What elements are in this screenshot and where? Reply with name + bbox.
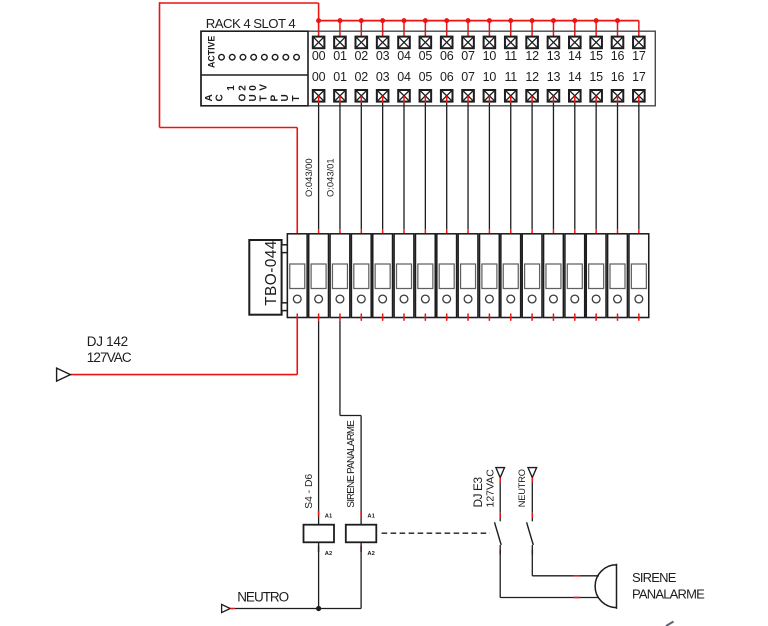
wire red drop col 16 [617, 21, 619, 43]
svg-text:05: 05 [419, 49, 433, 63]
wire red tick TBO top 04 [403, 229, 405, 239]
wire red tick TBO bottom 12 [531, 314, 533, 321]
wire output 15 to TBO [595, 103, 597, 230]
TBO-044 terminal 05 [415, 234, 435, 318]
wire output 17 to TBO [638, 103, 640, 230]
node bus junction col 01 [337, 18, 342, 23]
wire O:043/01 down lower [360, 416, 362, 525]
TBO-044 terminal 15 [586, 234, 606, 318]
svg-text:10: 10 [483, 70, 497, 84]
terminal bottom 13 [548, 90, 560, 102]
tab lower [282, 303, 289, 311]
wire red tick TBO top 01 [339, 229, 341, 239]
wire red stub terminal 14 [574, 96, 576, 103]
terminal bottom 02 [356, 90, 368, 102]
wire red drop col 13 [552, 21, 554, 43]
terminal bottom 16 [612, 90, 624, 102]
contact blade DJ E3 [495, 522, 502, 545]
terminal top 15 [590, 37, 602, 49]
wire DJ E3 to siren [500, 597, 599, 599]
TBO-044 terminal 00 [309, 234, 329, 318]
wire red tick TBO top 11 [510, 229, 512, 239]
svg-text:NEUTRO: NEUTRO [237, 590, 288, 605]
svg-text:0: 0 [248, 85, 259, 91]
wire contact fixed end NEUTRO switch [531, 517, 533, 521]
wire red tick above contact DJ E3 [499, 513, 501, 517]
svg-text:13: 13 [547, 49, 561, 63]
wire red tick TBO bottom 10 [488, 314, 490, 321]
svg-text:04: 04 [397, 70, 411, 84]
wire 127VAC feed top horizontal [160, 2, 319, 4]
module status divider [201, 74, 308, 76]
terminal bottom 15 [590, 90, 602, 102]
terminal bottom 06 [441, 90, 453, 102]
svg-text:12: 12 [525, 70, 539, 84]
svg-text:C: C [215, 94, 226, 101]
svg-text:V: V [259, 84, 270, 91]
terminal top 04 [398, 37, 410, 49]
dashed link coil K2 to contact DJ E3 [382, 532, 490, 534]
node bus junction col 04 [402, 18, 407, 23]
wire red tick TBO top 06 [446, 229, 448, 239]
tab upper [282, 245, 289, 253]
wire red tick TBO bottom supply [296, 314, 298, 321]
svg-text:11: 11 [504, 70, 517, 84]
wire red tick below contact NEUTRO switch [531, 550, 533, 555]
svg-text:TBO-044: TBO-044 [263, 240, 280, 306]
wire red drop col 05 [424, 21, 426, 43]
wire red tick below arrow DJ E3 [499, 478, 501, 483]
terminal top 17 [633, 37, 645, 49]
wire 127VAC horizontal to DJ 142 arrow [70, 374, 297, 376]
svg-text:T: T [291, 95, 302, 101]
svg-text:O:043/00: O:043/00 [303, 158, 314, 197]
wire red stub terminal 07 [467, 96, 469, 103]
TBO-044 terminal 11 [501, 234, 521, 318]
wire NEUTRO to siren [532, 575, 599, 577]
node bus junction col 16 [615, 18, 620, 23]
terminal strip label box TBO-044 [249, 240, 281, 315]
svg-text:04: 04 [397, 49, 411, 63]
svg-text:13: 13 [547, 70, 561, 84]
svg-text:U: U [280, 94, 291, 101]
terminal bottom 11 [505, 90, 517, 102]
wire output 03 to TBO [382, 103, 384, 230]
svg-text:05: 05 [419, 70, 433, 84]
node bus junction col 11 [508, 18, 513, 23]
terminal bottom 12 [526, 90, 538, 102]
wire red stub terminal 00 [318, 96, 320, 103]
svg-text:A: A [204, 94, 215, 101]
svg-text:O: O [237, 94, 248, 102]
wire 127VAC feed drop to TBO terminal [296, 128, 298, 240]
terminal top 02 [356, 37, 368, 49]
TBO-044 terminal 02 [351, 234, 371, 318]
wire output 07 to TBO [467, 103, 469, 230]
svg-text:14: 14 [568, 49, 582, 63]
wire red tick TBO bottom 15 [595, 314, 597, 321]
TBO-044 terminal 16 [608, 234, 628, 318]
terminal top 01 [334, 37, 346, 49]
svg-text:A2: A2 [325, 551, 332, 557]
terminal top 10 [484, 37, 496, 49]
TBO-044 terminal supply [287, 234, 307, 318]
stray mark [666, 622, 674, 626]
svg-text:01: 01 [333, 70, 347, 84]
svg-text:12: 12 [525, 49, 539, 63]
svg-text:11: 11 [504, 49, 517, 63]
terminal top 16 [612, 37, 624, 49]
svg-text:T: T [259, 95, 270, 101]
wire red tick TBO bottom 02 [360, 314, 362, 321]
svg-text:SIRENE PANALARME: SIRENE PANALARME [346, 420, 357, 508]
svg-text:DJ E3: DJ E3 [471, 477, 485, 508]
terminal bottom 17 [633, 90, 645, 102]
wire red stub terminal 05 [424, 96, 426, 103]
terminal top 03 [377, 37, 389, 49]
wire red tick TBO top 12 [531, 229, 533, 239]
svg-text:07: 07 [461, 49, 475, 63]
wire red tick TBO bottom 04 [403, 314, 405, 321]
wire red drop col 17 [638, 21, 640, 43]
LED indicators [219, 54, 300, 60]
node bus junction col 02 [359, 18, 364, 23]
TBO-044 terminal 17 [629, 234, 649, 318]
svg-text:O:043/01: O:043/01 [325, 158, 336, 197]
wire output 16 to TBO [617, 103, 619, 230]
wire red stub terminal 13 [552, 96, 554, 103]
wire red tick TBO top 16 [617, 229, 619, 239]
wire 127VAC feed mid horizontal [160, 127, 298, 129]
wire 127VAC below TBO terminal [296, 314, 298, 375]
node DJ 142 source arrow [57, 368, 71, 381]
wire red stub terminal 16 [617, 96, 619, 103]
siren horn [595, 564, 616, 609]
wire red drop col 11 [510, 21, 512, 43]
svg-text:PANALARME: PANALARME [632, 586, 705, 601]
svg-text:U: U [248, 94, 259, 101]
wire red drop col 14 [574, 21, 576, 43]
svg-text:16: 16 [611, 70, 625, 84]
wire red stub terminal 03 [382, 96, 384, 103]
TBO-044 terminal 13 [544, 234, 564, 318]
svg-text:02: 02 [355, 49, 369, 63]
wire red stub terminal 01 [339, 96, 341, 103]
wire red stub terminal 15 [595, 96, 597, 103]
wire upper DJ E3 [499, 483, 501, 513]
svg-text:NEUTRO: NEUTRO [517, 469, 527, 507]
terminal top 14 [569, 37, 581, 49]
wire 127VAC feed left vertical [159, 2, 161, 127]
node junction NEUTRO coil K1 [316, 606, 321, 611]
wire coil K2 to neutro [360, 542, 362, 608]
wire red tick A2 coil K1 [318, 546, 320, 553]
node NEUTRO switch arrow [528, 468, 537, 478]
wire O:043/01 down upper [339, 321, 341, 416]
wire red stub terminal 04 [403, 96, 405, 103]
contact blade NEUTRO switch [527, 522, 534, 545]
svg-text:127VAC: 127VAC [87, 350, 132, 365]
wire red tick below contact DJ E3 [499, 550, 501, 555]
node bus junction col 13 [551, 18, 556, 23]
TBO-044 terminal 10 [480, 234, 500, 318]
wire output 06 to TBO [446, 103, 448, 230]
svg-text:A1: A1 [367, 513, 375, 519]
svg-text:1: 1 [226, 85, 237, 91]
svg-text:16: 16 [611, 49, 625, 63]
TBO-044 terminal 01 [330, 234, 350, 318]
svg-text:06: 06 [440, 49, 454, 63]
wire red drop col 10 [488, 21, 490, 43]
terminal top 06 [441, 37, 453, 49]
wire red drop col 04 [403, 21, 405, 43]
wire red stub terminal 12 [531, 96, 533, 103]
wire contact fixed end DJ E3 [499, 517, 501, 521]
wire red tick A2 coil K2 [360, 546, 362, 553]
TBO-044 terminal 07 [458, 234, 478, 318]
wire red stub terminal 02 [360, 96, 362, 103]
node bus junction col 00 [316, 18, 321, 23]
svg-text:A1: A1 [325, 513, 333, 519]
wire red tick TBO bottom 11 [510, 314, 512, 321]
node bus junction col 03 [380, 18, 385, 23]
wire red drop col 06 [446, 21, 448, 43]
wire red bus over outputs [319, 20, 639, 22]
wire output 13 to TBO [552, 103, 554, 230]
svg-text:17: 17 [632, 70, 646, 84]
wire red tick TBO bottom 07 [467, 314, 469, 321]
coil K2 SIRENE PANALARME [346, 525, 377, 543]
module RACK 4 SLOT 4 outline [201, 31, 655, 106]
svg-text:00: 00 [312, 49, 326, 63]
wire red drop col 02 [360, 21, 362, 43]
wire red tick TBO bottom 14 [574, 314, 576, 321]
wire red drop col 15 [595, 21, 597, 43]
wire upper NEUTRO switch [531, 483, 533, 513]
wire output 02 to TBO [360, 103, 362, 230]
wire red stub terminal 17 [638, 96, 640, 103]
node bus junction col 05 [423, 18, 428, 23]
node NEUTRO source arrow [222, 604, 231, 612]
svg-text:03: 03 [376, 70, 390, 84]
terminal bottom 01 [334, 90, 346, 102]
svg-text:06: 06 [440, 70, 454, 84]
wire output 05 to TBO [424, 103, 426, 230]
terminal top 05 [420, 37, 432, 49]
wire output 04 to TBO [403, 103, 405, 230]
wire red tick TBO bottom 01 [339, 314, 341, 321]
svg-text:RACK 4 SLOT 4: RACK 4 SLOT 4 [206, 16, 296, 31]
wire red tick TBO top 05 [424, 229, 426, 239]
wire red tick TBO bottom 05 [424, 314, 426, 321]
wire red tick TBO top 15 [595, 229, 597, 239]
wire red drop col 03 [382, 21, 384, 43]
terminal bottom 00 [313, 90, 325, 102]
label AC OUTPUT [204, 94, 302, 102]
svg-text:SIRENE: SIRENE [632, 570, 677, 585]
terminal bottom 05 [420, 90, 432, 102]
node bus junction col 10 [487, 18, 492, 23]
node bus junction col 07 [466, 18, 471, 23]
wire red tick TBO top 00 [318, 229, 320, 239]
wire red tick TBO bottom 03 [382, 314, 384, 321]
svg-text:ACTIVE: ACTIVE [206, 36, 216, 68]
wire output 11 to TBO [510, 103, 512, 230]
TBO-044 terminal 04 [394, 234, 414, 318]
svg-text:A2: A2 [367, 551, 374, 557]
terminal bottom 03 [377, 90, 389, 102]
wire NEUTRO horizontal [235, 608, 361, 610]
terminal bottom 07 [462, 90, 474, 102]
wire red tick TBO top 14 [574, 229, 576, 239]
terminal top 07 [462, 37, 474, 49]
wire red tick NEUTRO arrow [230, 608, 235, 610]
TBO-044 terminal 14 [565, 234, 585, 318]
svg-text:15: 15 [589, 49, 603, 63]
terminal top 13 [548, 37, 560, 49]
wire red drop col 07 [467, 21, 469, 43]
wire red drop col 12 [531, 21, 533, 43]
node bus junction col 15 [594, 18, 599, 23]
wire O:043/01 jog [340, 415, 361, 417]
label 120V [226, 84, 270, 91]
wire O:043/00 down [318, 321, 320, 525]
svg-text:P: P [269, 95, 280, 102]
wire red tick above contact NEUTRO switch [531, 513, 533, 517]
wire red tick TBO top 17 [638, 229, 640, 239]
wire output 10 to TBO [488, 103, 490, 230]
wire red tick siren lower [574, 597, 580, 599]
svg-text:10: 10 [483, 49, 497, 63]
svg-text:2: 2 [237, 85, 248, 91]
wire NEUTRO switch down [531, 545, 533, 576]
terminal bottom 04 [398, 90, 410, 102]
svg-text:01: 01 [333, 49, 347, 63]
terminal top 12 [526, 37, 538, 49]
wire red tick TBO bottom 17 [638, 314, 640, 321]
terminal bottom 14 [569, 90, 581, 102]
wire red drop col 01 [339, 21, 341, 43]
svg-text:14: 14 [568, 70, 582, 84]
wire red tick TBO bottom 16 [617, 314, 619, 321]
svg-text:03: 03 [376, 49, 390, 63]
wire red tick TBO bottom 00 [318, 314, 320, 321]
wire red tick below arrow NEUTRO switch [531, 478, 533, 483]
node bus junction col 06 [444, 18, 449, 23]
TBO-044 terminal 12 [522, 234, 542, 318]
wire red tick TBO top 10 [488, 229, 490, 239]
wire red stub terminal 10 [488, 96, 490, 103]
coil K1 S4-D6 [304, 525, 335, 543]
node bus junction col 14 [572, 18, 577, 23]
wire red tick TBO top 07 [467, 229, 469, 239]
wire coil K1 to neutro [318, 542, 320, 608]
svg-text:15: 15 [589, 70, 603, 84]
wire red tick A1 coil K1 [318, 511, 320, 517]
svg-text:00: 00 [312, 70, 326, 84]
node DJ E3 arrow [496, 468, 505, 478]
terminal top 00 [313, 37, 325, 49]
terminal top 11 [505, 37, 517, 49]
svg-text:07: 07 [461, 70, 475, 84]
svg-text:DJ 142: DJ 142 [87, 334, 128, 349]
wire DJ E3 down [499, 545, 501, 598]
wire output 14 to TBO [574, 103, 576, 230]
wire red tick A1 coil K2 [360, 511, 362, 517]
wire red tick TBO top 13 [552, 229, 554, 239]
node bus junction col 12 [530, 18, 535, 23]
svg-text:17: 17 [632, 49, 646, 63]
wire red stub terminal 11 [510, 96, 512, 103]
module status box [201, 31, 308, 106]
wire red tick TBO top 02 [360, 229, 362, 239]
wire output 00 to TBO [318, 103, 320, 230]
terminal bottom 10 [484, 90, 496, 102]
wire red tick TBO bottom 13 [552, 314, 554, 321]
wire red drop col 00 from feed [318, 3, 320, 42]
wire output 12 to TBO [531, 103, 533, 230]
svg-text:02: 02 [355, 70, 369, 84]
wire red tick TBO bottom 06 [446, 314, 448, 321]
wire output 01 to TBO [339, 103, 341, 230]
wire red stub terminal 06 [446, 96, 448, 103]
wire red tick TBO top 03 [382, 229, 384, 239]
TBO-044 terminal 03 [373, 234, 393, 318]
svg-text:127VAC: 127VAC [485, 469, 497, 508]
svg-text:S4 - D6: S4 - D6 [304, 474, 315, 509]
TBO-044 terminal 06 [437, 234, 457, 318]
wire red tick siren upper [574, 575, 580, 577]
